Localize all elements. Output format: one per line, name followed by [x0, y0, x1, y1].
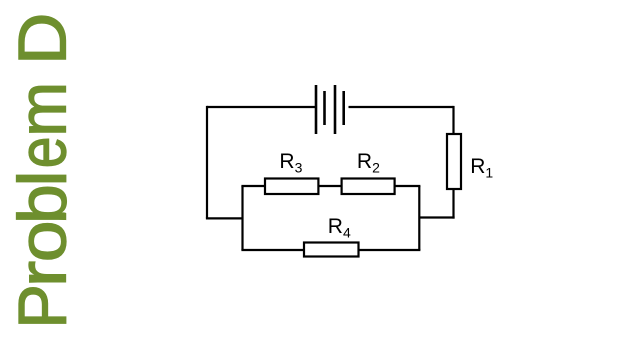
battery B1: [316, 85, 344, 134]
battery plate short 2: [342, 91, 345, 125]
battery plate long 1: [315, 85, 318, 134]
svg-text:ProblemD: ProblemD: [5, 13, 81, 329]
wire middle branch left: [241, 185, 265, 187]
resistor R1 body: [447, 134, 461, 189]
wire left vertical: [206, 106, 208, 218]
resistor R3 body: [265, 179, 318, 195]
svg-text:R1: R1: [470, 155, 493, 181]
wire right vertical upper (to R1): [452, 106, 454, 134]
wire between R3 and R2: [318, 185, 341, 187]
svg-text:R3: R3: [279, 150, 302, 176]
wire middle branch right: [395, 185, 421, 187]
wire right stub from parallel block: [419, 216, 454, 218]
wire top-left (battery left lead): [207, 106, 316, 108]
wire left stub to parallel block: [206, 217, 243, 219]
battery plate long 2: [334, 85, 337, 134]
wire bottom branch right: [359, 249, 421, 251]
battery plate short 1: [323, 91, 326, 125]
resistor R4 body: [304, 243, 359, 257]
resistor R2 body: [342, 179, 395, 195]
node left junction vertical: [241, 186, 243, 250]
wire right vertical lower (from R1): [452, 189, 454, 219]
node right junction vertical: [418, 186, 420, 250]
wire bottom branch left: [241, 249, 304, 251]
svg-text:R2: R2: [357, 150, 380, 176]
svg-text:R4: R4: [328, 215, 351, 241]
wire top-right (battery right lead): [349, 106, 454, 108]
